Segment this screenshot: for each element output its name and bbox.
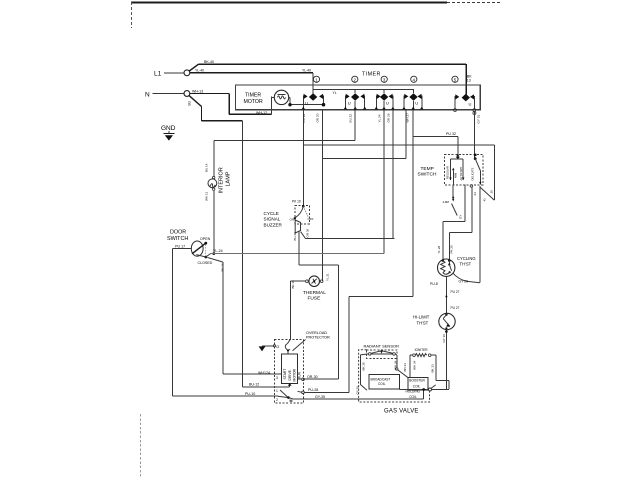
wire buzzer output to cam3 right leg xyxy=(306,238,395,240)
wire cam5 right leg down to temp switch xyxy=(473,112,475,159)
thermal fuse F1 xyxy=(290,273,329,302)
temp switch S2 xyxy=(418,154,483,185)
svg-text:TH'ST: TH'ST xyxy=(460,262,472,267)
overload protector OL1 xyxy=(285,331,330,354)
svg-text:TIMER: TIMER xyxy=(245,93,261,99)
ground GND xyxy=(161,125,176,141)
svg-text:PK 19: PK 19 xyxy=(292,200,301,204)
svg-text:48M: 48M xyxy=(453,172,457,178)
wire timer motor to cam1 junction xyxy=(288,97,323,106)
wire cam4 center down to gas valve loop, tee PU-32 xyxy=(349,110,413,393)
timer box xyxy=(236,71,481,109)
svg-text:GY-35: GY-35 xyxy=(315,395,325,399)
svg-text:BUZZER: BUZZER xyxy=(264,223,283,228)
svg-text:BU 22: BU 22 xyxy=(348,114,352,123)
timer motor M1 xyxy=(244,90,291,105)
svg-text:COIL: COIL xyxy=(409,395,417,399)
timer cam switch 5 xyxy=(454,94,476,115)
wire cam3 center down to door switch YL-24 xyxy=(383,110,385,254)
svg-text:REGULAR: REGULAR xyxy=(446,166,450,179)
svg-text:YL-24: YL-24 xyxy=(213,249,223,253)
svg-text:CYCLE: CYCLE xyxy=(264,211,279,216)
svg-text:YL-40: YL-40 xyxy=(195,69,204,73)
wire PU-32 to temp switch xyxy=(413,132,458,156)
svg-text:BK 35: BK 35 xyxy=(362,362,366,371)
wire GY-35 motor M to gas valve xyxy=(294,390,424,400)
wire igniter left to booster coil WH-34 xyxy=(410,355,416,378)
svg-text:G: G xyxy=(276,344,279,349)
wire thermal fuse left to overload protector xyxy=(289,281,291,339)
drive motor pin 3 xyxy=(275,374,282,380)
svg-text:GY 35: GY 35 xyxy=(356,386,360,395)
wire BU neutral bus from N xyxy=(188,96,243,388)
svg-text:WH12A: WH12A xyxy=(258,371,271,375)
svg-text:BU: BU xyxy=(188,100,192,105)
timer terminal number 2 xyxy=(352,76,358,82)
svg-text:THERMAL: THERMAL xyxy=(303,290,326,296)
svg-text:1: 1 xyxy=(276,389,278,393)
svg-text:OR 26: OR 26 xyxy=(387,113,391,122)
svg-text:BU-12: BU-12 xyxy=(249,383,259,387)
svg-text:ON: ON xyxy=(290,217,295,221)
wire PU-28 motor to cam4 riser xyxy=(304,388,349,392)
wire cycling to hi-limit PU-27 xyxy=(445,289,459,314)
svg-text:OPEN: OPEN xyxy=(200,237,211,241)
temp switch exit to cycling left xyxy=(437,185,465,260)
svg-text:COIL: COIL xyxy=(413,385,421,389)
drive motor M2 inner box xyxy=(282,354,302,384)
svg-text:PU-10: PU-10 xyxy=(245,392,255,396)
svg-text:CYCLING: CYCLING xyxy=(457,256,476,261)
timer cam switch 3 xyxy=(375,90,395,110)
svg-text:TEMP: TEMP xyxy=(421,166,434,172)
svg-text:3: 3 xyxy=(276,376,278,380)
svg-text:BROADCAST: BROADCAST xyxy=(371,377,391,381)
booster coil L1B xyxy=(406,378,429,399)
wire PU-17 loop to drive motor PU-10 xyxy=(173,249,275,397)
svg-text:2: 2 xyxy=(276,398,278,402)
svg-text:OR-30: OR-30 xyxy=(307,375,318,379)
page border bottom-left remnant xyxy=(140,414,142,477)
door switch S1 xyxy=(167,230,224,272)
wire radiant sensor left to broadcast coil xyxy=(356,354,369,395)
svg-text:GY: GY xyxy=(459,215,463,219)
svg-text:GY 29: GY 29 xyxy=(459,280,469,284)
svg-text:TIMER: TIMER xyxy=(362,71,381,77)
wire GY-29 cycling to right bus xyxy=(453,273,480,284)
page border top xyxy=(131,2,500,28)
svg-text:GY 16: GY 16 xyxy=(442,334,446,343)
svg-text:N: N xyxy=(145,91,150,98)
svg-text:YL 24: YL 24 xyxy=(378,114,382,122)
cycle signal buzzer BZ1 xyxy=(264,200,314,265)
gas valve dashed enclosure xyxy=(359,350,430,415)
svg-text:RUN: RUN xyxy=(298,371,302,379)
wire igniter right loop to hi-limit node BK-33 xyxy=(430,355,449,389)
wire hi-limit down to gas valve xyxy=(432,330,448,390)
svg-text:SIGNAL: SIGNAL xyxy=(264,217,281,222)
svg-text:GAS VALVE: GAS VALVE xyxy=(384,409,419,415)
svg-text:TH'ST: TH'ST xyxy=(417,320,429,325)
svg-text:HI-LIMIT: HI-LIMIT xyxy=(413,315,430,320)
wire BU-12 neutral to drive motor xyxy=(243,383,275,388)
svg-text:WH-12: WH-12 xyxy=(256,111,267,115)
svg-text:YL: YL xyxy=(333,91,337,95)
wire long feed to right side (buzzer net) xyxy=(303,145,494,200)
svg-text:YL 21: YL 21 xyxy=(326,273,330,281)
wire cam1 left leg to cycle signal buzzer (PK-19) xyxy=(302,110,304,206)
drive motor internal wires xyxy=(282,378,305,394)
svg-text:U: U xyxy=(386,100,389,105)
svg-text:YL-40: YL-40 xyxy=(302,69,311,73)
wire cam2 center to interior lamp line xyxy=(214,110,355,141)
svg-text:PU-8: PU-8 xyxy=(430,282,438,286)
timer cam switch 1 xyxy=(302,93,326,109)
svg-text:LAMP: LAMP xyxy=(226,171,232,186)
svg-text:L1: L1 xyxy=(154,71,162,78)
svg-text:OVERLOAD: OVERLOAD xyxy=(306,331,327,335)
svg-text:U: U xyxy=(348,100,351,105)
svg-text:DOOR: DOOR xyxy=(170,230,186,236)
svg-text:U: U xyxy=(469,101,472,106)
svg-text:WH 13: WH 13 xyxy=(205,192,209,202)
svg-text:WH 34: WH 34 xyxy=(413,361,417,371)
svg-text:BU 14: BU 14 xyxy=(205,163,209,172)
drive motor centrifugal switch xyxy=(278,390,294,403)
timer internal bus YL xyxy=(313,90,414,95)
wire cam3 right leg down to buzzer output xyxy=(392,110,394,239)
svg-text:WH 34: WH 34 xyxy=(393,361,397,371)
wire BK-40 from L1 to timer cam 5 xyxy=(189,60,472,95)
interior lamp DS1 xyxy=(205,141,232,255)
svg-text:PU-28: PU-28 xyxy=(308,388,318,392)
timer cam switch 4 xyxy=(402,90,423,110)
svg-text:PU 17: PU 17 xyxy=(175,244,185,248)
svg-text:U: U xyxy=(415,100,418,105)
svg-text:YL 28: YL 28 xyxy=(437,245,441,253)
radiant sensor S3 xyxy=(364,344,400,359)
igniter R2 xyxy=(413,348,431,356)
svg-text:SWITCH: SWITCH xyxy=(418,172,437,178)
temp switch exit to cycling right xyxy=(449,185,477,259)
node N xyxy=(145,91,190,99)
timer terminal number 5 xyxy=(452,76,458,82)
svg-text:PROTECTOR: PROTECTOR xyxy=(306,335,330,339)
svg-text:CLOSED: CLOSED xyxy=(198,261,213,265)
temp switch blade exit down right bus xyxy=(480,186,495,283)
wire WH-13 from N to timer motor xyxy=(190,89,271,115)
svg-text:BK-40: BK-40 xyxy=(204,60,214,64)
ground at drive motor G xyxy=(259,344,280,351)
svg-text:DRIVE: DRIVE xyxy=(288,369,292,380)
svg-text:OR 20: OR 20 xyxy=(316,113,320,122)
wire door switch bottom to drive motor WH12A xyxy=(223,262,275,375)
node L1 xyxy=(154,70,190,78)
gas valve bottom wire and contact xyxy=(399,385,435,391)
drive motor pin 1 xyxy=(275,387,282,393)
temp switch 4-8M stub contact xyxy=(443,185,458,216)
svg-text:OFF: OFF xyxy=(308,217,314,221)
svg-text:BU 36: BU 36 xyxy=(293,232,297,241)
svg-text:BK 33: BK 33 xyxy=(430,364,434,373)
svg-text:4-8M: 4-8M xyxy=(443,200,450,204)
svg-text:PK 25: PK 25 xyxy=(450,245,454,254)
broadcast coil L1A xyxy=(369,375,400,390)
svg-text:PU 27: PU 27 xyxy=(451,290,460,294)
svg-text:WH-13: WH-13 xyxy=(192,89,203,93)
svg-text:SWITCH: SWITCH xyxy=(167,236,188,242)
svg-text:BOOSTER: BOOSTER xyxy=(409,379,425,383)
wire cam1 right leg to thermal fuse (y158 tie) xyxy=(323,110,407,282)
timer terminal wire labels below box xyxy=(302,113,480,124)
svg-text:BN 34: BN 34 xyxy=(403,363,407,372)
svg-text:M: M xyxy=(290,399,293,403)
wire YL-40 from L1 to timer cam 1 xyxy=(190,69,313,95)
svg-text:PU 32: PU 32 xyxy=(446,132,456,136)
svg-text:GY 31: GY 31 xyxy=(477,115,481,124)
svg-text:START: START xyxy=(283,369,287,380)
svg-text:AUTO DRY: AUTO DRY xyxy=(459,167,463,181)
svg-text:DELICATE: DELICATE xyxy=(470,167,474,180)
drive motor pin 2 xyxy=(275,396,279,402)
svg-text:FUSE: FUSE xyxy=(308,296,321,302)
svg-text:13: 13 xyxy=(467,79,471,83)
cycling thermostat TH1 xyxy=(430,256,476,289)
svg-text:COIL: COIL xyxy=(378,382,386,386)
wire YL-24 door switch to cam3 xyxy=(211,253,385,255)
svg-text:41: 41 xyxy=(483,198,487,202)
svg-text:U: U xyxy=(305,100,308,105)
timer terminal number 4 xyxy=(411,76,417,82)
drive motor assembly dashed box xyxy=(275,339,304,403)
svg-text:OR 36: OR 36 xyxy=(306,228,310,237)
timer terminal number 3 xyxy=(381,76,387,82)
svg-text:BK 36: BK 36 xyxy=(291,280,295,289)
timer terminal number 1 xyxy=(313,76,319,82)
svg-text:MOTOR: MOTOR xyxy=(293,368,297,381)
svg-text:RADIANT SENSOR: RADIANT SENSOR xyxy=(364,344,400,349)
svg-text:35: 35 xyxy=(490,190,494,194)
wire buzzer loop to OR-30 drive motor xyxy=(299,265,338,379)
hi-limit thermostat TH2 xyxy=(413,313,455,329)
timer cam switch 2 xyxy=(344,90,367,110)
svg-text:PU 27: PU 27 xyxy=(451,306,460,310)
svg-text:IGNITER: IGNITER xyxy=(415,348,429,352)
svg-text:MOTOR: MOTOR xyxy=(244,99,263,105)
wire radiant sensor right to booster coil xyxy=(393,354,408,378)
svg-text:INTERIOR: INTERIOR xyxy=(219,167,225,193)
svg-text:24: 24 xyxy=(473,192,477,196)
